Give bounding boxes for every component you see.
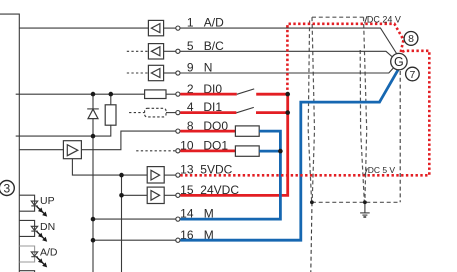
terminal 9 [176,71,180,75]
wire feed to 24VDC row [122,175,148,195]
LED A/D [31,252,37,257]
svg-text:DC 5 V: DC 5 V [368,165,396,175]
wire DQ1 red [180,149,235,152]
regulator symbol 24VDC [147,187,164,203]
converter symbol channel 5 [148,44,163,59]
svg-text:UP: UP [40,195,55,207]
cable dashed wire right outer [360,50,364,201]
LED DN [31,226,37,231]
svg-text:DN: DN [40,221,55,233]
terminal 16 [176,238,180,242]
svg-text:N: N [204,61,213,75]
cable dashed wire left inner [312,17,315,201]
wire amp to 5VDC feed [72,159,147,175]
terminal 2 [176,92,180,96]
wire to terminal 15 [164,194,175,196]
input box DI1 dashed [145,108,166,117]
cable dashed wire right inner [364,17,367,201]
wire 24VDC red bus [180,94,287,195]
terminal 13 [176,173,180,177]
svg-text:3: 3 [3,181,10,195]
junction DQ1 blue return [278,149,283,154]
wire left supply rail [0,14,19,272]
junction shield ground [363,200,367,204]
callout 3 [0,181,14,196]
wire DI1 red to 24V bus [256,111,288,114]
junction diode bottom [91,134,96,139]
wire DQ1 blue return [259,150,280,153]
terminal 5 [176,49,180,53]
protection diode D1 [87,94,99,136]
wire row 9 input dashed [127,72,149,74]
wire DI1 red [180,111,236,114]
callout 7 [406,67,420,81]
terminal 4 [176,111,180,115]
terminal 10 [176,149,180,153]
svg-text:B/C: B/C [204,39,224,53]
LED stub partial bottom [19,271,34,272]
LED A/D stub gray [19,246,34,262]
wire DQ0 blue return [180,131,280,219]
wire to terminal 9 [164,72,176,74]
wire terminal 1 to G [180,28,397,54]
wire row 14 M [93,218,176,220]
LED DN arrows [35,230,49,244]
wire to terminal 2 [166,93,176,95]
converter symbol channel 9 [148,65,163,80]
wire diode resistor return [16,125,111,136]
input box DI0 [145,90,166,99]
resistor R1 [105,94,116,125]
svg-text:8: 8 [408,33,414,45]
power supply G [391,53,407,69]
LED UP stub [19,195,34,211]
regulator symbol 5VDC [147,167,164,183]
svg-text:DC 24 V: DC 24 V [367,15,401,25]
dashed wire from G down [399,71,401,202]
junction resistor top [109,92,114,97]
junction shield left [310,200,314,204]
LED UP [31,201,37,206]
dashed wire shield to bottom [311,202,312,272]
wire DI0 red to 24V bus [256,93,288,96]
driver amplifier DQ [19,141,81,159]
terminal 14 [176,217,180,221]
svg-text:5: 5 [187,39,194,53]
junction 5VDC feed [119,173,124,178]
terminal 15 [176,193,180,197]
svg-text:9: 9 [187,61,194,75]
wire row 4 input dashed [129,112,145,114]
terminal 1 [176,26,180,30]
wire row 1 input [19,27,148,29]
label slash DC 24 V [365,16,367,23]
switch S1 blade [236,107,253,112]
LED A/D arrows [35,255,49,269]
dashed shield return horizontal [312,201,400,203]
ground symbol [360,202,370,217]
wire DI0 red [180,93,237,96]
wire amp output to row 8 [81,131,175,150]
junction diode top [91,92,96,97]
wire terminal 5 to G [180,51,393,57]
junction DI0 to 24V bus [285,92,290,97]
cable shield dashed box top edge [312,16,364,18]
converter symbol channel 1 [148,20,163,35]
wire row 2 DI0 input [16,93,145,95]
wire feed vertical to bottom [121,195,123,272]
junction 24VDC feed [119,193,124,198]
wire row 16 M [93,239,176,241]
wire to terminal 13 [164,174,175,176]
LED DN stub [19,220,34,236]
wire 16 M blue to G [180,67,399,240]
cable dashed wire left outer [308,21,311,202]
wire terminal 9 to G [180,67,394,73]
junction M rail row 16 [91,238,96,243]
svg-text:G: G [394,55,404,69]
svg-text:1: 1 [187,16,194,30]
wire to terminal 4 [166,112,176,114]
junction DI1 to 24V bus [285,110,290,115]
wire to terminal 5 [164,50,176,52]
label slash DC 5 V [365,168,368,175]
wire row 5 input dashed [127,50,149,52]
callout 8 [404,32,418,46]
wire to terminal 1 [164,27,176,29]
load box DQ0 [235,126,259,136]
wire DQ0 red [180,130,235,133]
svg-text:A/D: A/D [40,247,58,259]
junction M rail row 14 [91,217,96,222]
wire M rail vertical [92,136,94,272]
terminal 8 [176,129,180,133]
load box DQ1 [235,146,259,156]
svg-text:A/D: A/D [204,16,224,30]
svg-text:7: 7 [409,69,415,81]
switch S0 blade [237,89,254,94]
LED UP arrows [35,204,49,218]
wire 5VDC red dotted [180,24,429,176]
wire row 10 input dashed [136,150,175,152]
